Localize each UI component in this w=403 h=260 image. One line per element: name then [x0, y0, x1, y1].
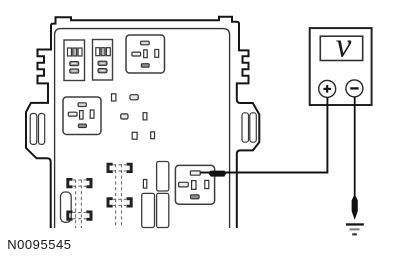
positive test lead wire [201, 98, 328, 173]
fuse holder rect 1 [157, 162, 169, 192]
hidden bracket column B [107, 163, 133, 228]
relay R2 [93, 40, 113, 81]
fuse holder rect 3 [142, 193, 155, 227]
fuse F5 [132, 132, 137, 139]
pill component [61, 192, 72, 222]
arrowhead to socket C [208, 171, 227, 177]
right tab slot 2 [250, 113, 256, 142]
relay socket C test point [175, 165, 214, 204]
fuse F4 [143, 113, 147, 120]
left tab slot 2 [39, 114, 45, 145]
fuse F3 [121, 114, 128, 119]
relay socket A [126, 35, 165, 73]
fuse box inner panel [55, 29, 230, 228]
fuse holder rect 2 [157, 193, 169, 227]
voltmeter V [310, 26, 372, 106]
right tab slot 1 [242, 113, 249, 142]
hidden bracket column A [66, 178, 92, 228]
relay R1 [64, 40, 85, 81]
ground symbol [346, 223, 364, 235]
svg-text:ν: ν [336, 26, 352, 65]
svg-text:N0095545: N0095545 [7, 237, 71, 252]
left tab slot 1 [30, 114, 37, 145]
negative test lead wire [354, 97, 356, 199]
relay socket B [63, 97, 101, 135]
fuse F7 [143, 180, 146, 189]
test probe tip [352, 196, 358, 220]
fuse box outer outline [26, 17, 259, 228]
fuse F6 [151, 132, 155, 139]
fuse F2 [130, 95, 138, 100]
fuse F1 [112, 94, 116, 101]
